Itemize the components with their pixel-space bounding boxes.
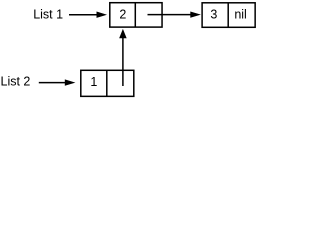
- wire: arrow List 1 to node 2: [69, 12, 107, 18]
- svg-text:List 2: List 2: [1, 74, 31, 88]
- svg-text:nil: nil: [234, 7, 247, 21]
- node 2 box: [110, 3, 162, 27]
- node 1 box: [81, 70, 134, 96]
- wire: arrow node 1 up to node 2: [119, 29, 127, 86]
- svg-text:List 1: List 1: [33, 8, 63, 22]
- svg-text:1: 1: [90, 75, 97, 89]
- node 3 box: [202, 3, 255, 28]
- wire: arrow node 2 to node 3: [148, 12, 201, 18]
- svg-text:3: 3: [210, 7, 217, 21]
- wire: arrow List 2 to node 1: [39, 79, 76, 85]
- svg-text:2: 2: [119, 7, 126, 21]
